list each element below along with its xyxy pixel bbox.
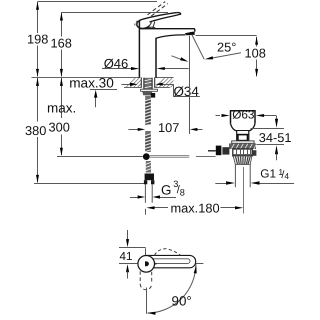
threaded shank through counter xyxy=(143,78,152,89)
dim Ø46 arrow right xyxy=(162,68,189,70)
max.30 up arrow xyxy=(95,94,97,107)
wire: 300 bottom extension xyxy=(57,156,143,158)
dim 300 vertical xyxy=(61,78,63,118)
dim Ø34 left arrow xyxy=(122,84,131,86)
dim max.180 arrows xyxy=(153,207,169,209)
flexible hose xyxy=(145,185,152,203)
wire: total-height ref line (198 level) xyxy=(38,1,158,3)
dim 41 upper arrow xyxy=(127,230,129,240)
body band right tab xyxy=(252,150,256,156)
svg-text:168: 168 xyxy=(51,36,72,51)
pivot D dot xyxy=(145,261,149,266)
svg-text:G: G xyxy=(161,183,171,198)
svg-text:max.180: max.180 xyxy=(171,201,220,216)
svg-text:8: 8 xyxy=(180,188,185,198)
svg-text:34-51: 34-51 xyxy=(259,130,292,145)
drain neck xyxy=(237,131,249,144)
svg-text:Ø34: Ø34 xyxy=(174,84,200,99)
svg-text:198: 198 xyxy=(27,32,48,47)
svg-text:107: 107 xyxy=(158,120,179,135)
stadium tip tick xyxy=(196,263,204,265)
threaded shank lower xyxy=(145,96,151,125)
countertop bottom line xyxy=(124,87,141,89)
90 degree swivel arc xyxy=(148,264,196,313)
spout top edge xyxy=(139,29,194,32)
clamp rod stub xyxy=(208,150,216,152)
wire: 380 bottom extension xyxy=(34,183,144,185)
svg-text:300: 300 xyxy=(49,120,70,135)
washer xyxy=(141,89,158,91)
dim 198 vertical xyxy=(37,2,39,33)
wire: spout reach extension down xyxy=(189,36,191,134)
wire: outlet ref to 108 xyxy=(196,35,257,37)
dim G1 1/4 arrows xyxy=(215,183,226,185)
34-51 bottom extension xyxy=(257,144,285,146)
countertop hatching xyxy=(126,78,174,87)
svg-text:25°: 25° xyxy=(217,39,236,54)
washer plate above seal xyxy=(232,141,254,143)
tailpipe xyxy=(235,165,250,188)
aerator dark wedge xyxy=(185,32,195,36)
seal band hatched xyxy=(229,143,256,149)
faucet body column xyxy=(139,21,156,78)
hole walls xyxy=(141,77,154,87)
svg-text:max.: max. xyxy=(47,100,76,115)
dim Ø63 arrows xyxy=(216,115,221,117)
34-51 lower arrow xyxy=(275,145,278,154)
rod guide box xyxy=(151,93,155,98)
plan inner lever contour xyxy=(153,259,190,264)
plan outer lever stadium xyxy=(146,255,196,267)
angle arc arrow xyxy=(172,56,182,60)
knob cap crescent (dashed) xyxy=(135,21,138,27)
25deg slant line from tip xyxy=(192,35,204,60)
rod to drain left segment xyxy=(150,156,189,158)
body band xyxy=(233,149,252,156)
dashed raised lever xyxy=(148,2,168,16)
lever knob xyxy=(137,19,150,28)
faucet axis stub below max.180 xyxy=(145,209,147,215)
lever top edge xyxy=(142,13,177,20)
tee joint xyxy=(143,153,150,160)
25deg leader with arrow xyxy=(211,53,241,58)
mounting nut xyxy=(142,92,152,96)
shank thread below tee xyxy=(146,161,151,173)
small rod dot xyxy=(155,263,157,265)
wire: spout-top ref line (168 level) xyxy=(61,12,168,14)
drain axis line xyxy=(243,167,245,214)
dashed hump arc xyxy=(155,249,181,256)
faucet column counter mask xyxy=(140,76,155,78)
dim 107 right arrow xyxy=(197,129,203,131)
spout underside xyxy=(156,35,186,38)
G3/8 connection nut xyxy=(145,174,154,181)
lever tip + underside xyxy=(150,13,181,22)
rod to drain right segment xyxy=(196,156,216,158)
lever base joint xyxy=(148,27,155,28)
drain flange xyxy=(231,111,256,124)
svg-text:4: 4 xyxy=(284,171,289,181)
clamp screw parts xyxy=(216,146,222,156)
thread tail trapezoid xyxy=(233,156,252,165)
swivel axis line xyxy=(146,288,148,314)
dim 108 vertical xyxy=(256,37,258,47)
dim Ø34 right arrow + stepped leader xyxy=(159,84,174,86)
34-51 upper arrow (from Ø63 tail) xyxy=(276,116,278,121)
dim Ø46 leader arrow left xyxy=(102,68,133,70)
svg-text:108: 108 xyxy=(245,45,266,60)
dim G3/8 arrows xyxy=(130,197,138,199)
34-51 top extension xyxy=(251,128,285,130)
hump drop line to circle xyxy=(145,248,147,256)
countertop surface line xyxy=(32,77,174,79)
dim 107 left arrow xyxy=(128,129,138,131)
svg-text:Ø63: Ø63 xyxy=(232,108,255,122)
dim 41 top extension line xyxy=(119,247,146,249)
svg-text:380: 380 xyxy=(25,123,46,138)
plug pin xyxy=(237,134,249,136)
svg-text:90°: 90° xyxy=(172,293,192,308)
svg-text:41: 41 xyxy=(120,250,133,263)
dim 380 vertical xyxy=(37,78,39,122)
dim 41 lower arrow xyxy=(126,264,129,272)
dim 168 vertical xyxy=(61,13,63,37)
plan pivot circle xyxy=(138,255,155,272)
svg-text:max.30: max.30 xyxy=(69,76,114,91)
dim 41 bottom extension line xyxy=(119,263,138,265)
lever neck lines xyxy=(148,22,155,29)
dashed spout U below xyxy=(140,271,152,290)
svg-text:G1: G1 xyxy=(260,167,276,181)
